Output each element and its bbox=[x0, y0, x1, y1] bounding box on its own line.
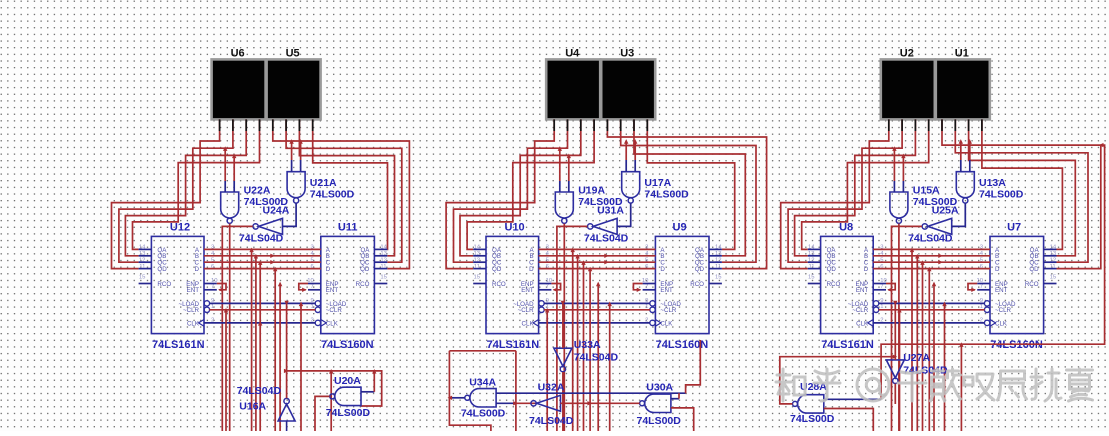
svg-text:U13A: U13A bbox=[979, 177, 1006, 189]
svg-text:14: 14 bbox=[715, 245, 722, 251]
svg-text:~CLR: ~CLR bbox=[326, 307, 343, 314]
svg-text:12: 12 bbox=[380, 257, 387, 263]
svg-text:~CLR: ~CLR bbox=[995, 307, 1012, 314]
svg-text:12: 12 bbox=[715, 257, 722, 263]
svg-text:15: 15 bbox=[808, 274, 815, 280]
svg-text:QD: QD bbox=[695, 266, 705, 273]
svg-text:U12: U12 bbox=[170, 222, 190, 234]
svg-text:U10: U10 bbox=[505, 222, 525, 234]
svg-text:74LS00D: 74LS00D bbox=[979, 189, 1024, 201]
svg-text:74LS04D: 74LS04D bbox=[908, 233, 953, 245]
svg-text:74LS04D: 74LS04D bbox=[584, 233, 629, 245]
svg-text:RCO: RCO bbox=[1025, 281, 1039, 288]
svg-text:74LS00D: 74LS00D bbox=[790, 413, 835, 425]
svg-text:U21A: U21A bbox=[310, 177, 337, 189]
svg-text:U2: U2 bbox=[900, 48, 914, 60]
svg-text:15: 15 bbox=[139, 274, 146, 280]
svg-text:ENT: ENT bbox=[995, 287, 1008, 294]
svg-text:14: 14 bbox=[808, 245, 815, 251]
svg-text:74LS04D: 74LS04D bbox=[239, 233, 284, 245]
svg-text:~CLR: ~CLR bbox=[183, 307, 200, 314]
svg-text:D: D bbox=[995, 266, 1000, 273]
svg-text:U17A: U17A bbox=[644, 177, 671, 189]
svg-text:RCO: RCO bbox=[827, 281, 841, 288]
svg-text:12: 12 bbox=[139, 257, 146, 263]
svg-text:U9: U9 bbox=[673, 222, 687, 234]
svg-text:U8: U8 bbox=[839, 222, 853, 234]
svg-text:U3: U3 bbox=[620, 48, 634, 60]
svg-text:13: 13 bbox=[380, 251, 387, 257]
svg-text:74LS00D: 74LS00D bbox=[644, 189, 689, 201]
svg-text:12: 12 bbox=[808, 257, 815, 263]
svg-text:CLK: CLK bbox=[326, 320, 339, 327]
svg-text:D: D bbox=[195, 266, 200, 273]
svg-text:74LS04D: 74LS04D bbox=[574, 352, 619, 364]
svg-text:14: 14 bbox=[1050, 245, 1057, 251]
svg-text:~CLR: ~CLR bbox=[518, 307, 535, 314]
svg-text:U25A: U25A bbox=[932, 205, 959, 217]
svg-text:74LS00D: 74LS00D bbox=[310, 189, 355, 201]
svg-text:QD: QD bbox=[360, 266, 370, 273]
svg-text:U16A: U16A bbox=[239, 401, 266, 413]
svg-text:CLK: CLK bbox=[660, 320, 673, 327]
svg-text:74LS161N: 74LS161N bbox=[152, 339, 205, 351]
svg-text:U32A: U32A bbox=[538, 382, 565, 394]
svg-text:11: 11 bbox=[808, 264, 814, 270]
svg-text:D: D bbox=[326, 266, 331, 273]
svg-text:74LS161N: 74LS161N bbox=[821, 339, 874, 351]
svg-text:U33A: U33A bbox=[574, 339, 601, 351]
svg-text:12: 12 bbox=[1050, 257, 1057, 263]
svg-text:ENT: ENT bbox=[660, 287, 673, 294]
svg-text:74LS00D: 74LS00D bbox=[461, 408, 506, 420]
svg-text:U11: U11 bbox=[338, 222, 358, 234]
svg-text:11: 11 bbox=[474, 264, 480, 270]
svg-text:ENT: ENT bbox=[187, 287, 200, 294]
svg-text:14: 14 bbox=[139, 245, 146, 251]
svg-text:74LS160N: 74LS160N bbox=[321, 339, 374, 351]
svg-text:U24A: U24A bbox=[263, 205, 290, 217]
svg-text:13: 13 bbox=[808, 251, 815, 257]
svg-text:~CLR: ~CLR bbox=[852, 307, 869, 314]
svg-text:D: D bbox=[529, 266, 534, 273]
svg-text:74LS00D: 74LS00D bbox=[637, 415, 682, 427]
svg-text:74LS04D: 74LS04D bbox=[237, 385, 282, 397]
svg-text:U5: U5 bbox=[286, 48, 300, 60]
svg-text:15: 15 bbox=[1050, 274, 1057, 280]
svg-text:13: 13 bbox=[1050, 251, 1057, 257]
svg-text:14: 14 bbox=[380, 245, 387, 251]
svg-text:ENT: ENT bbox=[326, 287, 339, 294]
svg-text:U4: U4 bbox=[565, 48, 580, 60]
svg-text:D: D bbox=[864, 266, 869, 273]
svg-text:ENT: ENT bbox=[856, 287, 869, 294]
svg-text:15: 15 bbox=[473, 274, 480, 280]
svg-text:QD: QD bbox=[157, 266, 167, 273]
svg-text:74LS161N: 74LS161N bbox=[487, 339, 540, 351]
svg-text:11: 11 bbox=[380, 264, 386, 270]
svg-text:U7: U7 bbox=[1007, 222, 1021, 234]
svg-text:RCO: RCO bbox=[690, 281, 704, 288]
svg-text:15: 15 bbox=[715, 274, 722, 280]
svg-text:ENT: ENT bbox=[521, 287, 534, 294]
svg-text:~CLR: ~CLR bbox=[660, 307, 677, 314]
svg-text:U15A: U15A bbox=[913, 185, 940, 197]
svg-text:RCO: RCO bbox=[157, 281, 171, 288]
svg-text:U30A: U30A bbox=[646, 382, 673, 394]
svg-text:CLK: CLK bbox=[187, 320, 200, 327]
svg-text:11: 11 bbox=[715, 264, 721, 270]
svg-text:74LS00D: 74LS00D bbox=[326, 407, 371, 419]
svg-text:QD: QD bbox=[492, 266, 502, 273]
svg-text:CLK: CLK bbox=[856, 320, 869, 327]
svg-text:RCO: RCO bbox=[356, 281, 370, 288]
svg-text:11: 11 bbox=[139, 264, 145, 270]
svg-text:15: 15 bbox=[380, 274, 387, 280]
svg-text:CLK: CLK bbox=[522, 320, 535, 327]
svg-text:RCO: RCO bbox=[492, 281, 506, 288]
svg-text:QD: QD bbox=[1029, 266, 1039, 273]
svg-text:13: 13 bbox=[715, 251, 722, 257]
svg-text:11: 11 bbox=[1050, 264, 1056, 270]
svg-text:U27A: U27A bbox=[903, 352, 930, 364]
svg-text:U1: U1 bbox=[955, 48, 969, 60]
svg-text:14: 14 bbox=[473, 245, 480, 251]
svg-text:D: D bbox=[660, 266, 665, 273]
svg-text:12: 12 bbox=[473, 257, 480, 263]
svg-text:U6: U6 bbox=[231, 48, 245, 60]
svg-text:U20A: U20A bbox=[334, 375, 361, 387]
svg-text:CLK: CLK bbox=[995, 320, 1008, 327]
svg-text:U31A: U31A bbox=[597, 205, 624, 217]
svg-text:U19A: U19A bbox=[578, 185, 605, 197]
svg-text:74LS04D: 74LS04D bbox=[529, 415, 574, 427]
svg-text:QD: QD bbox=[827, 266, 837, 273]
svg-text:U22A: U22A bbox=[244, 185, 271, 197]
svg-text:U34A: U34A bbox=[469, 377, 496, 389]
svg-text:13: 13 bbox=[139, 251, 146, 257]
svg-text:13: 13 bbox=[473, 251, 480, 257]
